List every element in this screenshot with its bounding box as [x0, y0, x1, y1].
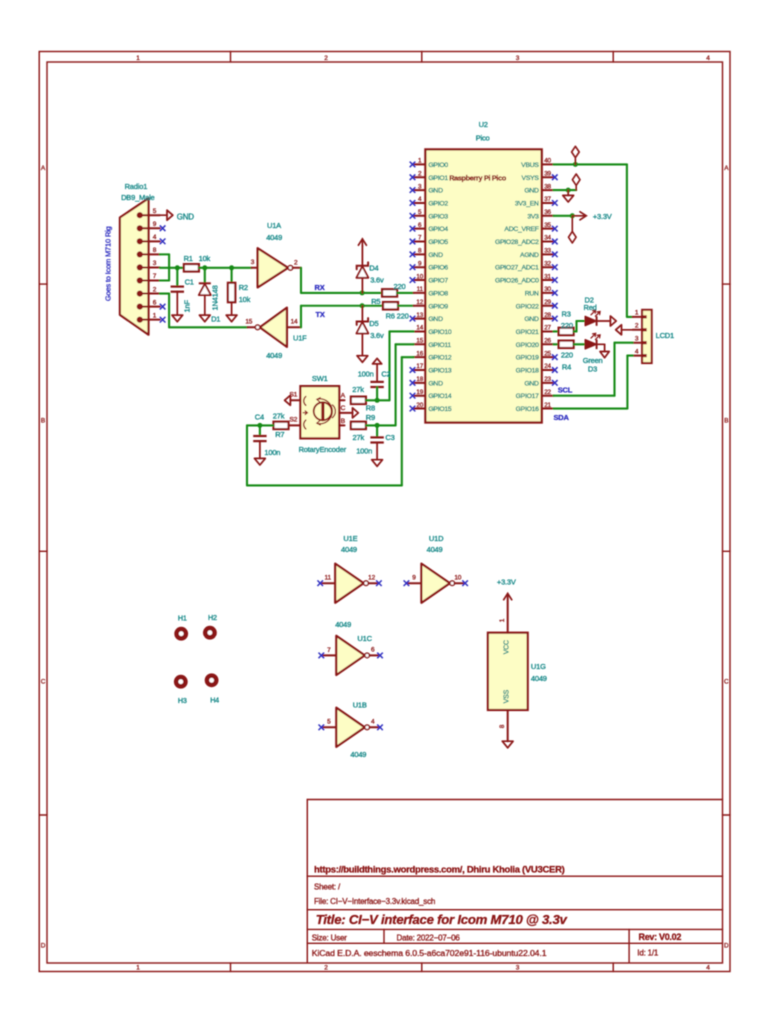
- svg-text:Title: CI−V interface for Icom: Title: CI−V interface for Icom M710 @ 3.…: [316, 912, 568, 927]
- svg-text:C: C: [724, 678, 729, 685]
- U2 pin 30 RUN: [542, 292, 554, 294]
- ground D2 cathode: [598, 320, 611, 322]
- svg-text:U1A: U1A: [267, 221, 281, 230]
- svg-text:GND: GND: [524, 316, 539, 323]
- svg-text:GPIO2: GPIO2: [428, 200, 448, 207]
- svg-text:8: 8: [499, 724, 506, 728]
- svg-text:27: 27: [544, 325, 551, 332]
- DB9 pin 8: [137, 251, 143, 257]
- U2 pin 38 GND: [542, 189, 554, 191]
- U2 pin 9 GPIO6: [414, 266, 426, 268]
- LCD1 pin 3: [633, 342, 642, 344]
- svg-text:5: 5: [327, 719, 331, 726]
- U2 pin 1 GPIO0: [414, 163, 426, 165]
- svg-text:GPIO18: GPIO18: [516, 368, 540, 375]
- svg-text:14: 14: [291, 319, 298, 326]
- svg-text:3: 3: [516, 55, 520, 62]
- U2 pin 12 GPIO9: [414, 305, 426, 307]
- svg-text:1: 1: [635, 310, 639, 317]
- svg-text:D: D: [724, 943, 729, 950]
- svg-text:D3: D3: [588, 364, 597, 373]
- U2 pin 24 GPIO18: [542, 369, 554, 371]
- svg-text:GPIO20: GPIO20: [516, 342, 540, 349]
- U2 pin 4 GPIO2: [414, 202, 426, 204]
- wire SCL GPIO17 to LCD1 pin3: [554, 395, 615, 397]
- capacitor C2 100n: [373, 358, 382, 364]
- svg-text:C4: C4: [255, 412, 264, 421]
- svg-text:H2: H2: [208, 613, 217, 622]
- svg-text:12: 12: [368, 574, 375, 581]
- svg-text:R7: R7: [275, 430, 284, 439]
- svg-text:18: 18: [416, 376, 423, 383]
- svg-text:S2: S2: [289, 416, 297, 423]
- svg-text:8: 8: [153, 247, 157, 254]
- svg-text:10: 10: [416, 273, 423, 280]
- op-amp buffer U1E 4049: [322, 582, 336, 584]
- ground D3 cathode: [598, 343, 605, 345]
- switch SW1 RotaryEncoder body: [300, 386, 339, 438]
- mounting hole H1: [174, 627, 188, 641]
- wire R7 to C4 junction and down: [247, 424, 274, 426]
- border row ticks right: [723, 283, 731, 285]
- svg-text:GPIO12: GPIO12: [428, 355, 452, 362]
- svg-text:Goes to Icom M710 Rig: Goes to Icom M710 Rig: [104, 226, 113, 301]
- wire DB9 pin3 to R1: [160, 267, 184, 269]
- svg-text:H3: H3: [178, 696, 187, 705]
- svg-text:U1D: U1D: [429, 534, 444, 543]
- wire rail up to GPIO12: [401, 357, 403, 485]
- node junction C1 tap: [175, 265, 180, 270]
- title block outline: [306, 800, 308, 963]
- svg-text:2: 2: [635, 323, 639, 330]
- svg-text:R1: R1: [184, 254, 193, 263]
- svg-text:9: 9: [412, 575, 416, 582]
- diode D1 1N4148: [204, 268, 206, 284]
- svg-text:4: 4: [153, 234, 157, 241]
- no-connect X DB9 pin 4: [160, 239, 166, 245]
- DB9 pin 9: [137, 225, 143, 231]
- svg-text:12: 12: [416, 299, 423, 306]
- svg-text:SDA: SDA: [554, 413, 570, 422]
- SW1 pin A: [339, 399, 344, 401]
- svg-text:20: 20: [416, 402, 423, 409]
- svg-text:R2: R2: [239, 283, 248, 292]
- SW1 pin B: [339, 424, 344, 426]
- U2 pin 18 GND: [414, 382, 426, 384]
- U2 pin 3 GND: [414, 189, 426, 191]
- mounting hole H2: [203, 626, 217, 640]
- svg-text:7: 7: [327, 647, 331, 654]
- wire R1 to U1A: [199, 267, 252, 269]
- svg-text:VCC: VCC: [503, 640, 510, 654]
- svg-text:GPIO8: GPIO8: [428, 290, 448, 297]
- U2 pin 33 AGND: [542, 253, 554, 255]
- svg-text:GPIO4: GPIO4: [428, 226, 448, 233]
- svg-text:220: 220: [561, 321, 573, 330]
- svg-text:https://buildthings.wordpress.: https://buildthings.wordpress.com/, Dhir…: [314, 864, 565, 875]
- svg-text:4049: 4049: [266, 233, 282, 242]
- svg-text:U1C: U1C: [357, 634, 372, 643]
- svg-text:1: 1: [499, 618, 506, 622]
- power flag PWR_FLAG on VBUS: [574, 159, 576, 165]
- DB9 pin 7: [137, 277, 143, 283]
- svg-text:4: 4: [706, 55, 710, 62]
- border column ticks bottom: [230, 963, 232, 972]
- wire GPIO21 to R3: [554, 330, 559, 332]
- svg-text:15: 15: [416, 338, 423, 345]
- svg-text:2: 2: [324, 55, 328, 62]
- U2 pin 36 3V3: [542, 215, 554, 217]
- svg-text:B: B: [341, 418, 346, 425]
- wire DB9 pin8 to pin7 loop: [160, 253, 169, 255]
- svg-text:GPIO5: GPIO5: [428, 239, 448, 246]
- svg-text:+3.3V: +3.3V: [593, 212, 612, 221]
- svg-text:34: 34: [544, 235, 551, 242]
- U2 pin 5 GPIO3: [414, 215, 426, 217]
- svg-text:AGND: AGND: [520, 252, 539, 259]
- U1G VSS pin 8: [507, 710, 509, 741]
- LCD1 pin 1: [633, 316, 642, 318]
- svg-text:GPIO16: GPIO16: [516, 406, 540, 413]
- U2 pin 23 GND: [542, 382, 554, 384]
- svg-text:36: 36: [544, 209, 551, 216]
- SW1 pin S1: [290, 399, 300, 401]
- wire VBUS: [554, 163, 627, 165]
- svg-text:1: 1: [136, 55, 140, 62]
- svg-text:GPIO15: GPIO15: [428, 406, 452, 413]
- svg-text:10k: 10k: [239, 295, 251, 304]
- SW1 pin C: [339, 412, 352, 414]
- node junction R2 tap: [229, 265, 234, 270]
- svg-text:3: 3: [516, 965, 520, 972]
- svg-text:Radio1: Radio1: [125, 182, 148, 191]
- U2 pin 21 GPIO16: [542, 408, 554, 410]
- power +3.3V arrow at 3V3: [572, 215, 584, 217]
- ground U1G: [502, 741, 513, 748]
- U2 pin 16 GPIO12: [414, 356, 426, 358]
- svg-text:GPIO3: GPIO3: [428, 213, 448, 220]
- svg-text:VSYS: VSYS: [522, 175, 540, 182]
- svg-text:6: 6: [153, 299, 157, 306]
- svg-text:4049: 4049: [531, 674, 547, 683]
- diode D5 zener 3.6v: [361, 306, 363, 322]
- svg-text:23: 23: [544, 376, 551, 383]
- op-amp buffer U1B 4049: [323, 726, 337, 728]
- svg-text:GPIO14: GPIO14: [428, 393, 452, 400]
- svg-text:Size: User: Size: User: [312, 933, 347, 942]
- ground C4: [255, 458, 266, 465]
- U2 pin 13 GND: [414, 318, 426, 320]
- U2 pin 26 GPIO20: [542, 343, 554, 345]
- svg-text:GPIO13: GPIO13: [428, 368, 452, 375]
- ground C3: [372, 460, 383, 467]
- no-connect X DB9 pin 9: [160, 225, 166, 231]
- svg-text:40: 40: [544, 158, 551, 165]
- DB9 pin 2: [137, 291, 143, 297]
- U2 pin 6 GPIO4: [414, 228, 426, 230]
- U2 pin 34 GPIO28_ADC2: [542, 241, 554, 243]
- node junction VBUS: [573, 162, 578, 167]
- svg-text:4: 4: [371, 719, 375, 726]
- SW1 switch contacts: [304, 397, 306, 406]
- capacitor C3 100n: [376, 425, 378, 437]
- svg-text:21: 21: [544, 402, 551, 409]
- border column ticks top: [230, 52, 232, 63]
- svg-text:R5: R5: [371, 297, 380, 306]
- svg-text:H4: H4: [210, 695, 219, 704]
- svg-text:C1: C1: [185, 277, 194, 286]
- svg-text:C: C: [340, 405, 345, 412]
- op-amp buffer U1C 4049: [323, 654, 337, 656]
- svg-text:27k: 27k: [352, 385, 364, 394]
- svg-text:D5: D5: [369, 319, 378, 328]
- U2 pin 35 ADC_VREF: [542, 228, 554, 230]
- ground C1: [172, 315, 183, 322]
- ground D1: [199, 315, 210, 322]
- U2 pin 11 GPIO8: [414, 292, 426, 294]
- svg-text:GPIO21: GPIO21: [516, 329, 540, 336]
- svg-text:H1: H1: [178, 614, 187, 623]
- svg-text:22: 22: [544, 389, 551, 396]
- svg-text:19: 19: [416, 389, 423, 396]
- node junction D1 tap: [202, 265, 207, 270]
- svg-text:3V3_EN: 3V3_EN: [515, 200, 539, 207]
- U2 pin 7 GPIO5: [414, 241, 426, 243]
- svg-text:LCD1: LCD1: [656, 331, 674, 340]
- svg-text:GPIO1: GPIO1: [428, 175, 448, 182]
- svg-text:27k: 27k: [273, 411, 285, 420]
- svg-text:100n: 100n: [356, 447, 372, 456]
- svg-text:R9: R9: [366, 413, 375, 422]
- power flag PWR_FLAG on GND: [575, 186, 577, 190]
- svg-text:U1B: U1B: [353, 701, 367, 710]
- LED D2 Red: [585, 316, 596, 325]
- svg-text:4049: 4049: [341, 545, 357, 554]
- U2 pin 22 GPIO17: [542, 395, 554, 397]
- svg-text:GND: GND: [524, 380, 539, 387]
- resistor R3 220: [559, 328, 574, 335]
- svg-text:+3.3V: +3.3V: [497, 577, 516, 586]
- svg-text:16: 16: [416, 350, 423, 357]
- border inner frame: [47, 62, 723, 963]
- wire SDA GPIO16 to LCD1 pin4: [554, 407, 628, 409]
- svg-text:U1E: U1E: [343, 534, 357, 543]
- U2 pin 25 GPIO19: [542, 356, 554, 358]
- SW1 pin S2: [290, 424, 301, 426]
- ground at LCD1 pin2: [622, 329, 633, 331]
- svg-text:C3: C3: [385, 433, 394, 442]
- svg-text:TX: TX: [316, 310, 325, 319]
- svg-text:B: B: [41, 417, 45, 424]
- U2 pin 10 GPIO7: [414, 279, 426, 281]
- svg-text:GPIO17: GPIO17: [516, 393, 540, 400]
- svg-text:4049: 4049: [350, 750, 366, 759]
- svg-text:GPIO26_ADC0: GPIO26_ADC0: [495, 278, 539, 285]
- svg-text:GND: GND: [524, 188, 539, 195]
- node junction 3V3: [570, 213, 575, 218]
- U2 pin 17 GPIO13: [414, 369, 426, 371]
- border row ticks left: [39, 283, 47, 285]
- svg-text:35: 35: [544, 222, 551, 229]
- svg-text:DB9_Male: DB9_Male: [121, 193, 154, 202]
- wire R8 to GPIO10: [366, 399, 390, 401]
- U2 pin 20 GPIO15: [414, 408, 426, 410]
- LCD1 pin 2: [633, 329, 642, 331]
- svg-text:Id: 1/1: Id: 1/1: [637, 948, 659, 957]
- svg-text:17: 17: [416, 363, 423, 370]
- diode D4 zener 3.6v: [357, 262, 368, 269]
- U2 pin 28 GND: [542, 318, 554, 320]
- wire U1F input to TX line: [300, 306, 302, 328]
- wire R4 to D3: [574, 343, 586, 345]
- svg-text:24: 24: [544, 363, 551, 370]
- svg-text:11: 11: [417, 286, 424, 293]
- no-connect X DB9 pin 6: [160, 304, 166, 310]
- U2 pin 27 GPIO21: [542, 330, 554, 332]
- svg-text:4049: 4049: [266, 351, 282, 360]
- DB9 pin 5: [137, 212, 143, 218]
- ground symbol below pin38: [567, 190, 569, 195]
- wire DB9 pin2 to U1F output: [160, 293, 169, 295]
- svg-text:5: 5: [153, 208, 157, 215]
- DB9 pin 3: [137, 264, 143, 270]
- svg-text:R3: R3: [562, 309, 571, 318]
- svg-text:4049: 4049: [335, 620, 351, 629]
- svg-text:VSS: VSS: [503, 689, 510, 703]
- svg-text:32: 32: [544, 260, 551, 267]
- svg-text:U1F: U1F: [293, 334, 307, 343]
- svg-text:KiCad E.D.A. eeschema 6.0.5-a: KiCad E.D.A. eeschema 6.0.5-a6ca702e91-1…: [312, 948, 547, 958]
- svg-text:ADC_VREF: ADC_VREF: [504, 226, 538, 233]
- wire U1A output to RX line: [300, 268, 302, 293]
- SW1 rotary symbol: [314, 402, 332, 420]
- svg-text:GPIO6: GPIO6: [428, 265, 448, 272]
- wire GND pin38: [554, 189, 577, 191]
- DB9 pin 4: [137, 238, 143, 244]
- resistor R1: [184, 264, 199, 271]
- wire R5 to GPIO8: [397, 292, 414, 294]
- svg-text:15: 15: [245, 319, 252, 326]
- svg-text:10k: 10k: [199, 254, 211, 263]
- svg-text:26: 26: [544, 338, 551, 345]
- wire R3 to D2: [574, 330, 577, 332]
- svg-text:39: 39: [544, 170, 551, 177]
- svg-text:A: A: [724, 165, 729, 172]
- svg-text:A: A: [41, 165, 46, 172]
- svg-text:D1: D1: [211, 315, 220, 324]
- svg-text:3: 3: [153, 260, 157, 267]
- svg-text:11: 11: [325, 575, 332, 582]
- LED D3 Green: [585, 340, 596, 349]
- op-amp buffer U1D 4049: [408, 582, 422, 584]
- svg-text:4: 4: [706, 965, 710, 972]
- svg-text:29: 29: [544, 299, 551, 306]
- svg-text:R4: R4: [562, 363, 571, 372]
- svg-text:GND: GND: [428, 252, 443, 259]
- node junction GND: [566, 188, 571, 193]
- svg-text:9: 9: [153, 221, 157, 228]
- svg-text:VBUS: VBUS: [521, 162, 539, 169]
- svg-text:B: B: [724, 417, 728, 424]
- svg-text:100n: 100n: [358, 370, 374, 379]
- wire 3V3 pin36: [554, 215, 573, 217]
- svg-text:13: 13: [416, 312, 423, 319]
- svg-text:GPIO22: GPIO22: [516, 303, 540, 310]
- resistor R7 27k: [274, 422, 289, 429]
- resistor R9 27k: [351, 422, 366, 429]
- mounting hole H4: [205, 673, 219, 687]
- capacitor C4 100n: [259, 425, 261, 436]
- svg-text:37: 37: [544, 196, 551, 203]
- svg-text:1: 1: [153, 312, 157, 319]
- svg-text:RUN: RUN: [525, 290, 539, 297]
- svg-text:Rev: V0.02: Rev: V0.02: [639, 932, 682, 942]
- U2 pin 40 VBUS: [542, 163, 554, 165]
- svg-text:3: 3: [635, 335, 639, 342]
- LCD1 pin 4: [633, 355, 642, 357]
- U2 pin 8 GND: [414, 253, 426, 255]
- wire R6 to GPIO9: [398, 305, 414, 307]
- svg-text:GPIO19: GPIO19: [516, 355, 540, 362]
- svg-text:1N4148: 1N4148: [211, 285, 220, 310]
- IC U2 Raspberry Pi Pico body: [425, 149, 541, 422]
- svg-text:Date: 2022−07−06: Date: 2022−07−06: [397, 933, 461, 942]
- U2 pin 37 3V3_EN: [542, 202, 554, 204]
- svg-text:GND: GND: [428, 316, 443, 323]
- node junction TX/D5: [360, 303, 365, 308]
- svg-text:GPIO11: GPIO11: [428, 342, 451, 349]
- svg-text:10: 10: [454, 574, 461, 581]
- connector Radio1 DB9_Male body: [120, 198, 149, 334]
- svg-text:GPIO10: GPIO10: [428, 329, 452, 336]
- no-connect X DB9 pin 1: [160, 317, 166, 323]
- resistor R2: [231, 268, 233, 283]
- U2 pin 2 GPIO1: [414, 176, 426, 178]
- svg-text:GND: GND: [428, 188, 443, 195]
- svg-text:GPIO0: GPIO0: [428, 162, 448, 169]
- svg-text:2: 2: [153, 286, 157, 293]
- svg-text:File: CI−V−Interface−3.3v.kica: File: CI−V−Interface−3.3v.kicad_sch: [314, 897, 435, 906]
- svg-text:SW1: SW1: [312, 374, 328, 383]
- svg-text:2: 2: [294, 259, 298, 266]
- svg-text:GPIO7: GPIO7: [428, 278, 448, 285]
- DB9 pin 6: [137, 304, 143, 310]
- connector LCD1 body: [642, 310, 652, 363]
- svg-text:GPIO9: GPIO9: [428, 303, 448, 310]
- wire R9 to GPIO11: [366, 424, 396, 426]
- svg-text:Sheet: /: Sheet: /: [314, 883, 341, 892]
- svg-text:38: 38: [544, 183, 551, 190]
- svg-text:25: 25: [544, 350, 551, 357]
- svg-text:Pico: Pico: [476, 134, 490, 143]
- IC U1G 4049 power unit body: [488, 633, 528, 710]
- svg-text:31: 31: [544, 273, 551, 280]
- svg-text:220: 220: [394, 282, 406, 291]
- U1G VCC pin 1: [507, 596, 509, 633]
- svg-text:GPIO28_ADC2: GPIO28_ADC2: [495, 239, 539, 246]
- svg-text:7: 7: [153, 273, 157, 280]
- svg-text:100n: 100n: [264, 448, 280, 457]
- svg-text:U2: U2: [479, 120, 488, 129]
- svg-text:C2: C2: [381, 370, 390, 379]
- U2 pin 29 GPIO22: [542, 305, 554, 307]
- svg-text:R8: R8: [366, 403, 375, 412]
- svg-text:4: 4: [635, 348, 639, 355]
- resistor R5 220: [382, 289, 397, 296]
- svg-text:2: 2: [324, 965, 328, 972]
- U2 pin 15 GPIO11: [414, 343, 426, 345]
- wire VBUS down to LCD1 pin1: [626, 164, 628, 317]
